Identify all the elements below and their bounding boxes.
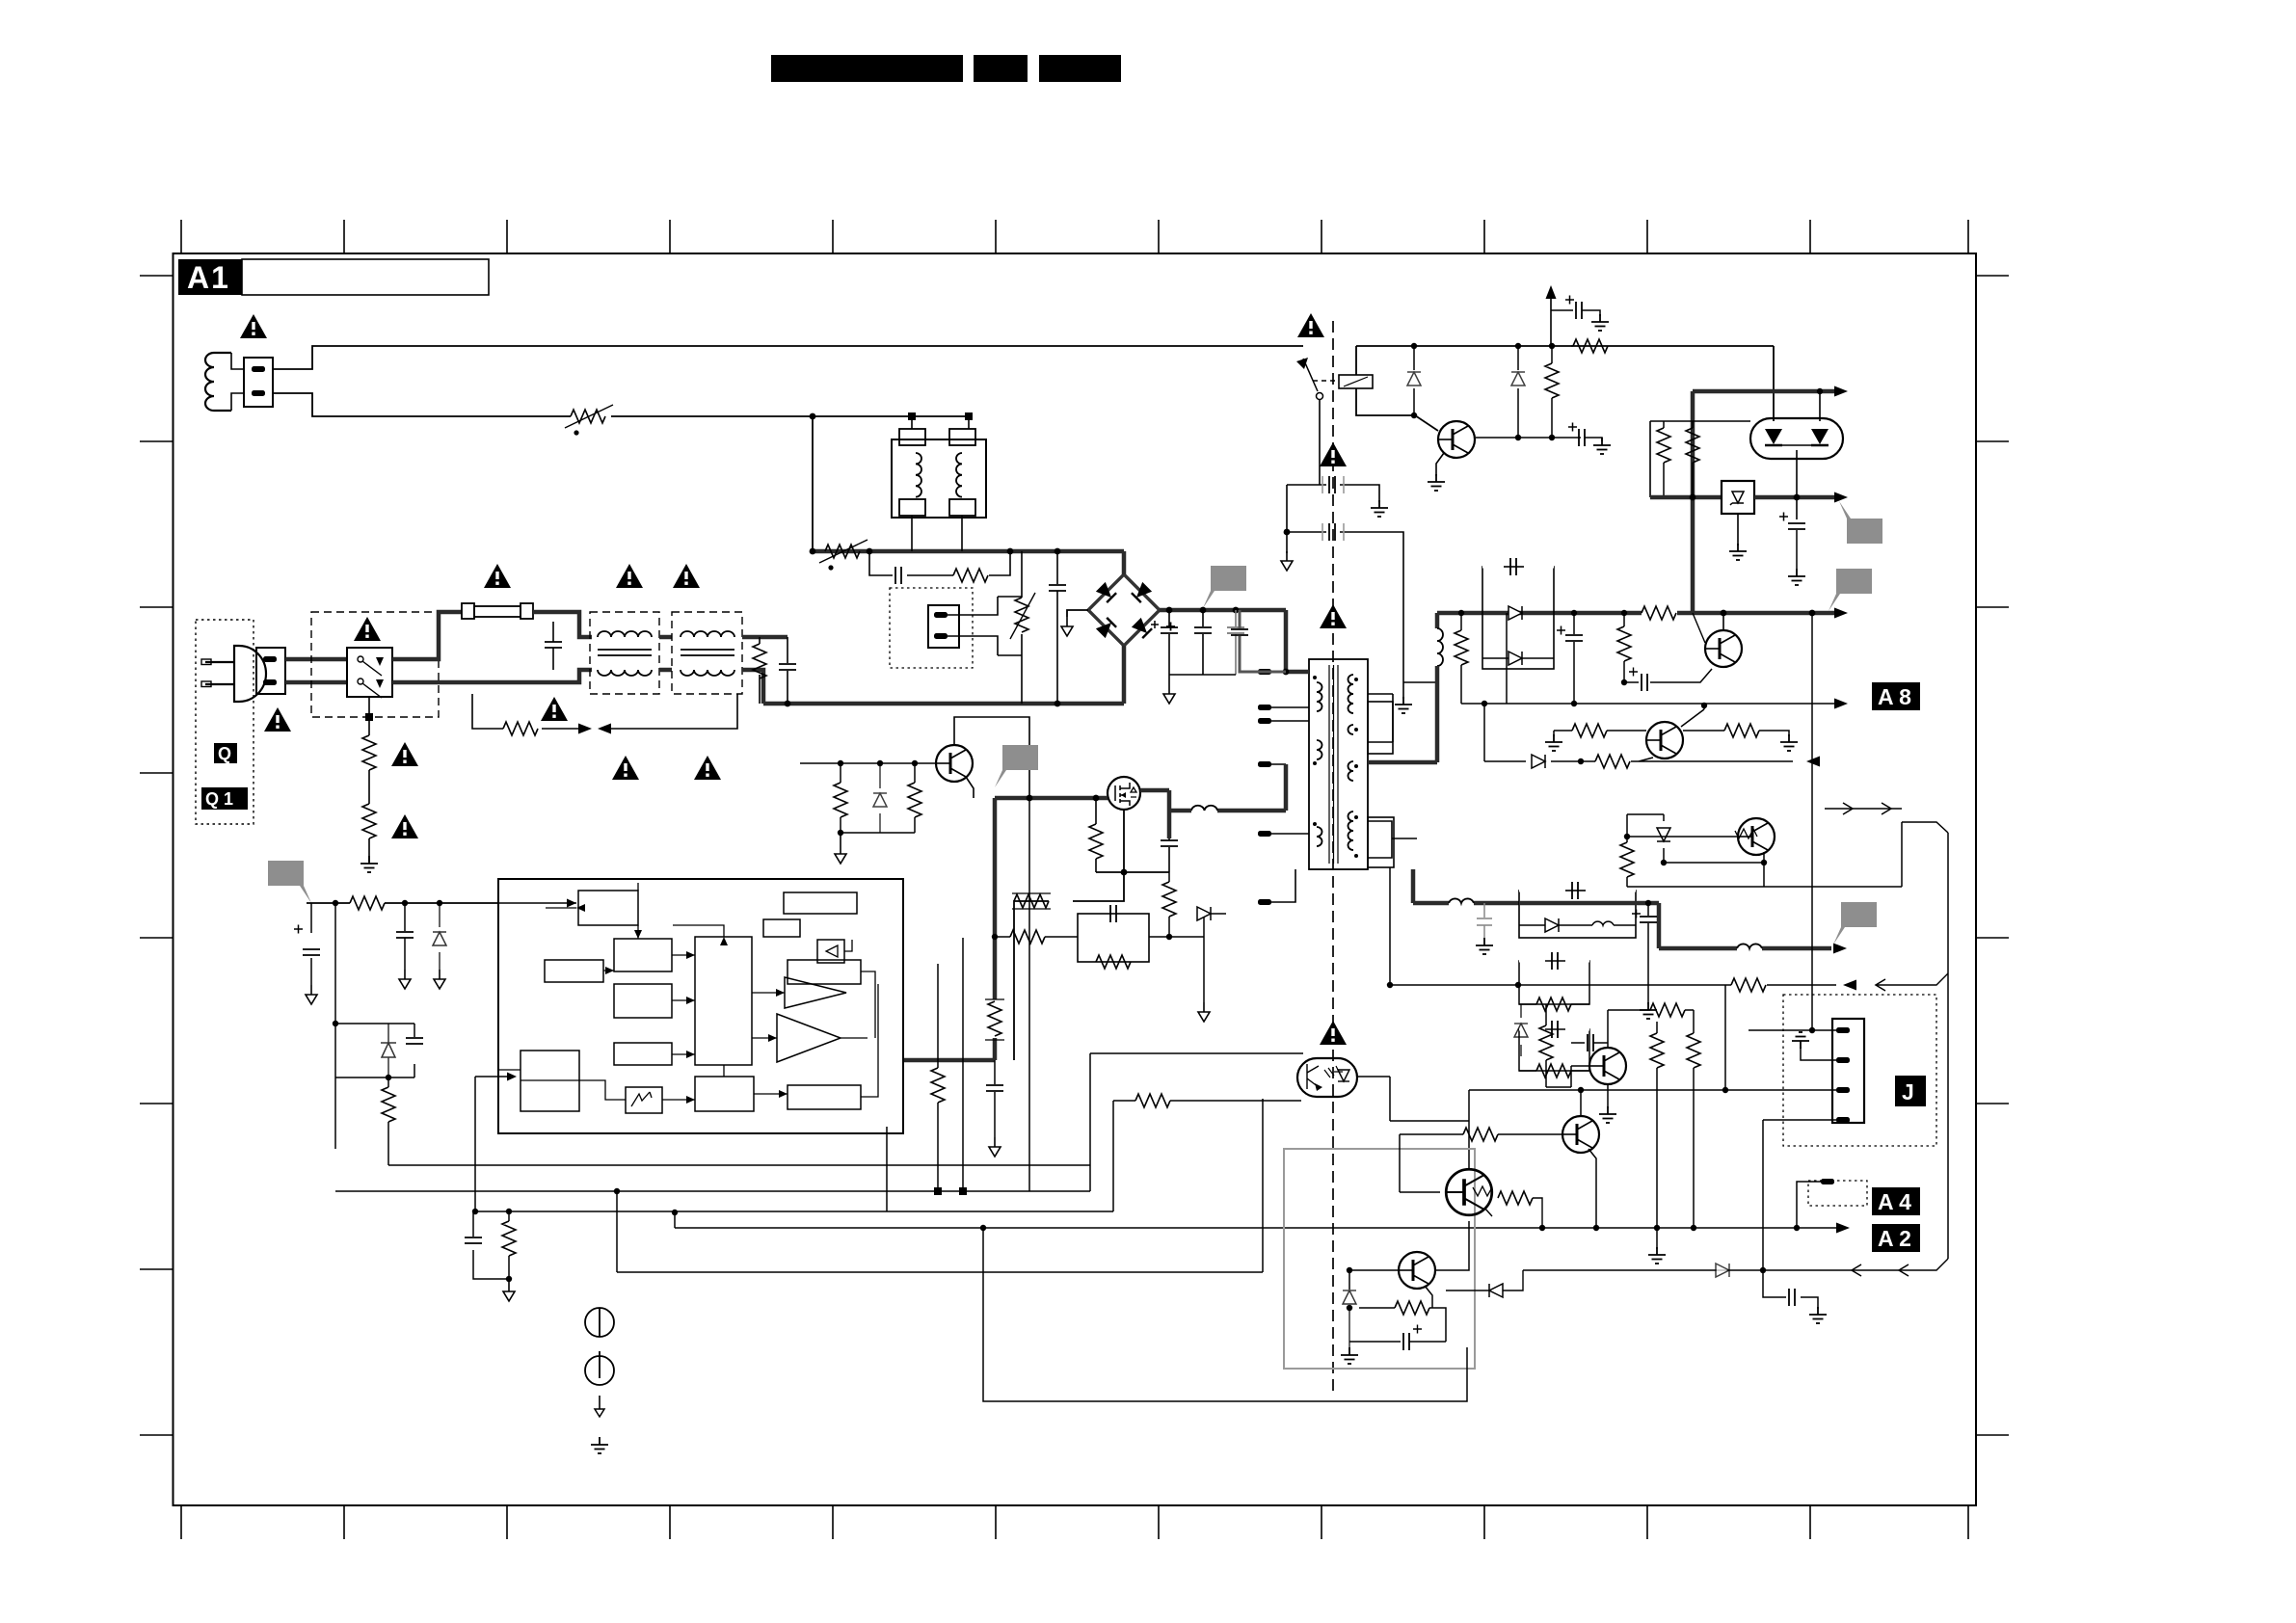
wire neutral run (392, 670, 592, 682)
capacitor C27 (1571, 1034, 1608, 1051)
RCD clamp cap C8 (1231, 610, 1286, 672)
wire gate drive (903, 798, 1108, 1060)
wire live (285, 657, 347, 662)
wire base from rail resistor (1693, 613, 1705, 643)
feedback riser (617, 1099, 1263, 1272)
earth ground (1428, 474, 1445, 491)
junction (402, 900, 408, 906)
wire pin4 (1763, 1120, 1836, 1270)
sheet title box (blank) (242, 259, 489, 295)
ic internal wires (498, 883, 878, 1100)
wire secondary out thick (1368, 760, 1437, 765)
wire pins to bus (1271, 672, 1309, 902)
A4 dotted box (1808, 1181, 1867, 1206)
chassis ground (503, 1282, 515, 1301)
chassis ground (1061, 617, 1073, 636)
arrow left (1806, 757, 1820, 767)
A4 label (1872, 1187, 1920, 1215)
choke L3 dashed box (672, 612, 742, 694)
resistor R20 (995, 930, 1078, 944)
legend: earth ground (591, 1437, 608, 1453)
RC box C19 R21 (1078, 905, 1149, 969)
diode D12 (1657, 814, 1670, 863)
junction (1761, 860, 1767, 865)
earth ground (1341, 1347, 1358, 1364)
ic block: top right (784, 892, 857, 914)
earth ground (1640, 1002, 1657, 1019)
wire bias row (1650, 421, 1750, 497)
junction (838, 760, 843, 766)
wire emitter to ground (1436, 453, 1444, 476)
wire emitter (1763, 852, 1765, 887)
NTC R5 (819, 540, 868, 571)
open arrow (1899, 1264, 1909, 1276)
pin 1 (252, 366, 265, 372)
thick +out rail (1693, 389, 1834, 394)
secondary tap box 2 (1368, 817, 1394, 867)
grid tick marks left (140, 276, 173, 1435)
junction (1347, 1305, 1352, 1311)
open arrow (1882, 803, 1891, 814)
zener D14 (1514, 1004, 1528, 1056)
grid tick marks top (181, 220, 1968, 253)
pin 3 (1836, 1087, 1850, 1093)
under IC wire 1 (388, 1164, 1090, 1166)
capacitor C2 (779, 637, 796, 704)
wire pin1 (1749, 1029, 1836, 1031)
diode D11 (1532, 755, 1545, 768)
wire base Q9 (1400, 1134, 1446, 1192)
junction (1283, 669, 1290, 676)
resistor R36 (1650, 1022, 1664, 1228)
arrow (1834, 386, 1848, 397)
chassis ground (1281, 551, 1293, 571)
mains plug P1 (201, 646, 266, 702)
wire bridge minus (1067, 610, 1088, 617)
wire live after switch (392, 612, 462, 659)
resistor R30 (1620, 837, 1634, 887)
pin (1258, 669, 1271, 675)
isolation barrier dash-dot line (1332, 321, 1334, 1393)
wire (533, 612, 592, 637)
transistor Q9 (1446, 1169, 1492, 1215)
wire posistor (948, 597, 1022, 655)
resistor R2 (362, 804, 376, 838)
resistor R12 on rail (1571, 339, 1608, 353)
junction (1654, 1225, 1660, 1231)
legend: signal ground arrow (595, 1396, 604, 1417)
electrolytic C30 (1349, 1325, 1446, 1351)
wire bridge AC bottom (1122, 646, 1127, 704)
snubber cap C9 (1161, 838, 1178, 872)
warning triangle (1320, 442, 1347, 466)
snubber capacitor C3 (869, 551, 918, 584)
warning triangle (1297, 313, 1324, 337)
electrolytic cap C12 (1565, 296, 1600, 320)
svg-text:A 4: A 4 (1878, 1189, 1911, 1214)
resistor R15 (350, 896, 385, 910)
junction (1549, 343, 1555, 349)
earth ground (1599, 1106, 1616, 1123)
arrow (1836, 1223, 1850, 1234)
junction (959, 1187, 967, 1195)
pin (1821, 1179, 1834, 1184)
resistor R31 (1731, 978, 1766, 992)
flag marker (1829, 569, 1872, 611)
junction (1690, 494, 1696, 501)
wire between chokes (659, 637, 672, 670)
wire secondary aux (1368, 821, 1417, 858)
wire pin A4 (1797, 1182, 1821, 1228)
ic block: small (763, 919, 800, 937)
wire (231, 353, 244, 411)
wire bottom rail (763, 702, 1124, 706)
diode D17 (1446, 1225, 1545, 1297)
diode D3 (1511, 346, 1525, 438)
arrow left (1843, 980, 1856, 991)
open arrow (1852, 1264, 1861, 1276)
junction (1027, 795, 1033, 802)
flag marker (268, 861, 311, 903)
mains plug dotted box (196, 620, 254, 824)
electrolytic cap C15 (294, 903, 320, 985)
return line (1390, 984, 1836, 986)
pin (1258, 761, 1271, 767)
wire +B to primary (1286, 610, 1309, 672)
PTC thermistor R3 (565, 405, 613, 436)
wire degauss feed (273, 346, 1303, 369)
earth ground (1788, 569, 1805, 585)
flag marker (1839, 501, 1882, 544)
junction (1166, 607, 1173, 614)
junction (1200, 607, 1207, 614)
wire degauss return (273, 393, 969, 416)
connector X2 (256, 648, 285, 694)
junction (980, 1225, 986, 1231)
earth ground (1545, 731, 1562, 751)
earth ground (1729, 544, 1747, 560)
choke L2 windings (598, 631, 652, 676)
polarity dots (1313, 676, 1317, 679)
error transistor Q7 (1589, 1048, 1626, 1084)
junction (1007, 548, 1014, 555)
capacitor C29 (1789, 1289, 1795, 1306)
wire switch to bleeder (368, 697, 370, 862)
wire +B bus (1160, 608, 1286, 613)
A2 label (1872, 1224, 1920, 1252)
svg-text:A 2: A 2 (1878, 1226, 1911, 1251)
reservoir cap C5 (1151, 610, 1178, 675)
warning triangle (541, 697, 568, 721)
redacted title bar 1 (771, 55, 963, 82)
junction (1593, 1225, 1599, 1231)
dotted box (1783, 995, 1936, 1146)
wire base row (800, 762, 936, 764)
junction (1387, 982, 1393, 988)
warning triangle (616, 564, 643, 588)
thick rail continue (1754, 495, 1834, 500)
warning triangle (391, 814, 418, 838)
grid tick marks bottom (181, 1505, 1968, 1539)
diode D15 (1716, 1264, 1729, 1277)
wire filter to degauss rail (912, 416, 969, 551)
junction (333, 1021, 338, 1026)
transistor Q3 (936, 745, 973, 782)
junction (867, 548, 873, 555)
fuse F1 (462, 603, 533, 619)
wire Q9 down (1435, 1221, 1469, 1270)
junction (437, 900, 442, 906)
wire pin3 long (1469, 985, 1836, 1169)
thick vertical feed (1691, 391, 1695, 613)
secondary ground bus (1368, 694, 1393, 742)
wire bridge AC top (1122, 551, 1127, 574)
degauss relay switch SW2 (1303, 359, 1323, 485)
resistor R11 (1545, 346, 1559, 438)
chassis ground (835, 844, 846, 864)
transformer T1 box (1309, 659, 1368, 869)
earth ground (1395, 697, 1412, 713)
junction (472, 1209, 478, 1214)
diode D8 (873, 763, 887, 833)
junction (1794, 494, 1801, 501)
wire supply stub (1551, 299, 1573, 346)
transistor Q6 (1738, 818, 1775, 855)
pin 1 (1836, 1027, 1850, 1033)
pin 4 (1836, 1117, 1850, 1123)
secondary winding 2 (1348, 725, 1354, 734)
resistor R41 (931, 1068, 945, 1103)
under IC wire 3 (475, 1127, 1113, 1211)
flag marker (1833, 902, 1877, 945)
wire collector (1580, 1090, 1582, 1116)
junction (1166, 934, 1172, 940)
junction (1624, 834, 1630, 839)
junction (1055, 548, 1061, 555)
earth ground (1792, 1032, 1809, 1049)
driver transistor Q5 (1646, 722, 1683, 758)
junction (810, 548, 816, 555)
pin 2 (1836, 1057, 1850, 1063)
arrowhead (507, 1073, 517, 1081)
VDR R8 (1010, 551, 1035, 704)
earth ground (1371, 500, 1388, 517)
warning triangle (264, 707, 291, 732)
pin (1258, 831, 1271, 837)
gate resistor R9 (1089, 798, 1103, 872)
Y-capacitor C10 (1287, 476, 1379, 502)
electrolytic cap C22 (1624, 668, 1712, 692)
wire base row (1349, 1270, 1399, 1290)
electrolytic cap C24 (1632, 903, 1657, 1004)
thick mid out rail (1650, 495, 1722, 500)
junction (1760, 1267, 1766, 1273)
wire (1149, 914, 1226, 1002)
sense cap C18 + resistor R17 (465, 1211, 509, 1282)
ic block: supply (578, 891, 638, 925)
wire (1546, 1010, 1643, 1108)
ic block: uvlo (545, 960, 603, 982)
zener box D5 (1722, 481, 1754, 514)
resistor R16 (382, 1078, 395, 1165)
svg-text:A1: A1 (187, 260, 230, 295)
junction (1571, 610, 1577, 616)
ic arrows (576, 904, 788, 1104)
electrolytic cap C14 (1779, 513, 1805, 570)
pin (1258, 705, 1271, 710)
wire emitter to gate node (966, 777, 974, 798)
optocoupler U2 (1297, 1058, 1357, 1097)
wire vcc row (307, 902, 498, 904)
flag marker (995, 745, 1038, 787)
sense line (1461, 613, 1834, 704)
junction (1482, 701, 1487, 706)
ic block: osc (614, 939, 672, 971)
feedback line (1484, 758, 1793, 761)
warning triangle (240, 314, 267, 338)
wire (1627, 814, 1703, 837)
diode D9 (1197, 907, 1211, 920)
transistor Q8 (1562, 1116, 1599, 1153)
wire top rail to double diode (1773, 346, 1775, 421)
snubber box C26 R33 (1519, 1021, 1589, 1078)
resistor R4 across choke (753, 637, 766, 704)
startup diode D7 + cap C17 (335, 903, 423, 1149)
svg-text:A 8: A 8 (1878, 684, 1911, 709)
junction (908, 412, 916, 420)
redacted title bar 3 (1039, 55, 1121, 82)
resistor R1 (362, 735, 376, 770)
ladder resistor R23 (985, 999, 1004, 1040)
diode D16 (1343, 1290, 1356, 1350)
wire oval top right (1819, 391, 1821, 421)
ferrite bead L5 (1191, 806, 1217, 811)
secondary tap box 1 (1368, 702, 1393, 754)
junction (1055, 701, 1061, 707)
posistor dotted box (890, 588, 973, 668)
warning triangle (1320, 604, 1347, 628)
earth ground (360, 856, 378, 872)
wire J feed (1811, 613, 1813, 1030)
resistor R40 (1359, 1301, 1446, 1342)
wire diode bottom (1664, 862, 1764, 864)
mechanical link dashed (1313, 380, 1339, 382)
junction (386, 1075, 391, 1080)
ic block: driver (695, 1077, 754, 1111)
capacitor C28 (1620, 1087, 1657, 1093)
riser (674, 1212, 676, 1228)
wire vcc into IC (498, 902, 576, 904)
emitter resistor R28 (1683, 724, 1789, 737)
resistor R26 (1617, 613, 1631, 682)
arrow (1833, 944, 1847, 954)
wire bottom row (841, 833, 915, 844)
primary winding 2 (1317, 740, 1322, 759)
wire hot rail (813, 549, 1124, 554)
junction (1701, 703, 1707, 708)
sheet label A1 (178, 259, 242, 295)
primary winding 3 (1317, 827, 1322, 846)
capacitor C4 (1049, 551, 1066, 704)
resistor R24 (1642, 606, 1676, 620)
grey enclosure (1284, 1149, 1475, 1369)
A2 line (675, 1227, 1836, 1229)
junction (1809, 610, 1816, 617)
rectifier block D13 (1519, 882, 1636, 938)
capacitor C6 (1194, 610, 1212, 675)
wire source sense (1014, 810, 1169, 1060)
arrow (1834, 492, 1848, 503)
pin 1 (263, 656, 277, 662)
resistor R18 (834, 763, 847, 833)
inductor L8 (1737, 944, 1762, 948)
primary winding 1 (1317, 682, 1322, 711)
arrowhead (567, 899, 576, 908)
connector J1 (1832, 1019, 1864, 1123)
svg-text:Q: Q (218, 744, 231, 763)
wire drop (937, 964, 939, 1191)
ic block: double left (521, 1051, 579, 1111)
ic opamp 2 (777, 1014, 841, 1062)
sense resistor R10 (1012, 893, 1051, 909)
wire drain (1217, 764, 1286, 811)
warning triangle (354, 617, 381, 641)
junction (614, 1188, 620, 1194)
relay coil K1 (1339, 375, 1373, 388)
ic buffer box (817, 940, 844, 963)
snubber resistor R6 (918, 551, 1010, 582)
wire collector (1722, 613, 1724, 630)
junction (810, 413, 816, 420)
wire opto drive bottom (1113, 1101, 1301, 1211)
open arrow (1876, 979, 1885, 991)
wire neutral (285, 680, 347, 685)
junction (965, 412, 973, 420)
legend: hot ground symbol (585, 1308, 614, 1337)
junction (1578, 758, 1584, 764)
relay driver transistor Q2 (1438, 421, 1475, 458)
pin (934, 633, 948, 639)
resistor R37 (1687, 1010, 1700, 1228)
junction (934, 1187, 942, 1195)
svg-text:Q 1: Q 1 (205, 789, 233, 809)
earth ground (1476, 938, 1493, 954)
junction (1233, 607, 1240, 614)
junction (1121, 869, 1128, 876)
posistor R7 (928, 605, 959, 648)
wire pin2 to gnd (1801, 1047, 1836, 1060)
wire down to cap (1763, 1270, 1818, 1309)
border frame (174, 253, 1977, 1505)
warning triangle (484, 564, 511, 588)
wire opto drive top (1090, 1053, 1303, 1191)
wire link to under-IC bus (983, 1228, 1467, 1401)
chassis ground (399, 970, 411, 989)
polarity dots (1354, 678, 1358, 681)
wire after chokes (742, 637, 788, 704)
junction (1817, 388, 1823, 394)
earth ground (1780, 734, 1798, 751)
A8 label (1872, 682, 1920, 710)
svg-text:J: J (1902, 1079, 1914, 1104)
feedback stub into IC (475, 1077, 509, 1211)
ic block: central control (695, 937, 752, 1065)
thick rail to coil (1636, 903, 1831, 948)
junction (1515, 343, 1521, 349)
spark-gap and resistor under chokes (472, 694, 737, 735)
resistor R35 (1643, 1003, 1694, 1017)
junction (1794, 1225, 1800, 1231)
